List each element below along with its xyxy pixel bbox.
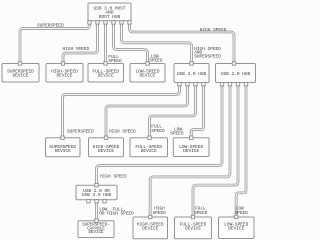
svg-text:HIGH SPEED: HIGH SPEED	[200, 27, 227, 33]
port USB 2.0 hub upstream port	[232, 62, 235, 65]
wire root port3 to Full-Speed device (FULL SPEED)	[104, 22, 107, 64]
svg-text:OR HIGH SPEED: OR HIGH SPEED	[99, 211, 134, 217]
port row-3 device upstream ports	[149, 215, 238, 218]
svg-text:DEVICE: DEVICE	[57, 73, 73, 79]
wire root port1 to SuperSpeed device (SUPERSPEED)	[20, 22, 90, 64]
svg-text:DEVICE: DEVICE	[141, 148, 157, 154]
box row-1 FULL-SPEED DEVICE	[88, 64, 124, 83]
box row-2 LOW-SPEED DEVICE	[173, 138, 209, 157]
svg-text:SUPERSPEED: SUPERSPEED	[194, 53, 221, 59]
svg-text:DEVICE: DEVICE	[98, 73, 114, 79]
box row-1 HIGH-SPEED DEVICE	[46, 64, 83, 83]
svg-text:SUPERSPEED: SUPERSPEED	[37, 22, 64, 28]
wire USB 3.0 hub port3 to row-2 Full-Speed device (FULL SPEED)	[150, 84, 196, 138]
label LOW SPEED (root to row-1 low-speed device)	[149, 53, 163, 63]
svg-text:ROOT HUB: ROOT HUB	[99, 14, 121, 20]
box U3 USB 2.0 HUB	[216, 64, 256, 83]
wire USB 2.0-or-3.0 hub middle port to SuperSpeed-capable device (LOW, FULL, OR HIGH SPEED)	[95, 200, 98, 221]
port SuperSpeed-capable device upstream port	[95, 219, 98, 222]
box SUPERSPEED-CAPABLE DEVICE	[78, 221, 114, 238]
wire root port4 to Low-Speed device (LOW SPEED)	[114, 22, 148, 64]
svg-text:SPEED: SPEED	[170, 131, 184, 137]
svg-text:DEVICE: DEVICE	[142, 226, 158, 232]
svg-text:SPEED: SPEED	[153, 210, 167, 216]
wire root port6 to USB 2.0 hub (HIGH SPEED)	[130, 22, 235, 64]
svg-text:DEVICE: DEVICE	[13, 73, 29, 79]
svg-text:SPEED: SPEED	[194, 210, 208, 216]
box row-3 HIGH-SPEED DEVICE	[133, 217, 168, 239]
box row-2 HIGH-SPEED DEVICE	[89, 138, 124, 157]
label HIGH SPEED (USB 2.0 hub to USB 2.0-or-3.0 hub)	[100, 173, 127, 179]
svg-text:HIGH SPEED: HIGH SPEED	[109, 128, 136, 134]
port USB 2.0 hub downstream ports 1-4	[220, 83, 247, 86]
svg-text:DEVICE: DEVICE	[185, 226, 201, 232]
wire USB 3.0 hub port1 to row-2 SuperSpeed device (SUPERSPEED)	[63, 84, 180, 138]
box row-3 FULL-SPEED DEVICE	[175, 217, 212, 239]
svg-text:DEVICE: DEVICE	[98, 148, 114, 154]
svg-text:DEVICE: DEVICE	[140, 73, 156, 79]
svg-text:HIGH SPEED: HIGH SPEED	[63, 46, 90, 52]
wire root port5 to USB 3.0 hub (HIGH SPEED AND SUPERSPEED)	[122, 22, 192, 64]
svg-text:HIGH SPEED: HIGH SPEED	[100, 173, 127, 179]
box U1 USB 3.0 HOST AND ROOT HUB	[88, 3, 131, 21]
box row-1 SUPERSPEED DEVICE	[2, 64, 39, 83]
label LOW SPEED (row-3)	[235, 205, 249, 216]
wire USB 2.0 hub port1 to USB 2.0-or-3.0 hub (HIGH SPEED)	[97, 84, 223, 185]
svg-text:USB 2.0 HUB: USB 2.0 HUB	[221, 71, 251, 77]
label FULL SPEED (row-2)	[151, 124, 165, 135]
port row-1 device upstream ports	[18, 62, 149, 65]
port USB 3.0 hub downstream ports 1-4	[178, 83, 205, 86]
label LOW, FULL, OR HIGH SPEED	[99, 206, 134, 216]
box row-1 LOW-SPEED DEVICE	[130, 64, 165, 83]
port root hub downstream ports 1-6	[88, 21, 131, 24]
box row-3 LOW-SPEED DEVICE	[219, 217, 255, 239]
svg-text:DEVICE: DEVICE	[183, 148, 199, 154]
box U4 USB 2.0 OR USB 3.0 HUB	[76, 185, 117, 200]
svg-text:DEVICE: DEVICE	[228, 226, 244, 232]
svg-text:DEVICE: DEVICE	[88, 231, 104, 235]
box U2 USB 3.0 HUB	[174, 64, 209, 83]
wire USB 3.0 hub port4 to row-2 Low-Speed device (LOW SPEED)	[191, 84, 203, 138]
label SUPERSPEED (root to row-1 superspeed device)	[37, 22, 64, 28]
label HIGH SPEED (root to row-1 high-speed device)	[63, 46, 90, 52]
label HIGH SPEED (root to USB 2.0 hub)	[200, 27, 227, 33]
label LOW SPEED (row-2)	[170, 127, 184, 137]
svg-text:DEVICE: DEVICE	[55, 148, 71, 154]
svg-text:SPEED: SPEED	[149, 57, 163, 63]
port row-2 device upstream ports	[61, 136, 193, 139]
wire USB 2.0 hub port4 to row-3 Low-Speed device (LOW SPEED)	[236, 84, 246, 217]
label HIGH SPEED AND SUPERSPEED (root to USB 3.0 hub)	[194, 46, 221, 60]
box row-2 SUPERSPEED DEVICE	[46, 138, 81, 157]
port USB 2.0-or-3.0 hub downstream ports 1-3	[87, 200, 106, 203]
box row-2 FULL-SPEED DEVICE	[130, 138, 168, 157]
wire USB 2.0 hub port3 to row-3 Full-Speed device (FULL SPEED)	[193, 84, 238, 217]
svg-text:USB 3.0 HUB: USB 3.0 HUB	[177, 71, 207, 77]
label FULL SPEED (root to row-1 full-speed device)	[108, 54, 122, 64]
port USB 2.0-or-3.0 hub upstream port	[95, 184, 98, 187]
wire USB 2.0 hub port2 to row-3 High-Speed device (HIGH SPEED)	[150, 84, 230, 217]
svg-text:SUPERSPEED: SUPERSPEED	[67, 128, 94, 134]
port USB 3.0 hub upstream port	[190, 62, 193, 65]
svg-text:USB 3.0 HUB: USB 3.0 HUB	[82, 192, 112, 198]
svg-text:SPEED: SPEED	[235, 210, 249, 216]
label SUPERSPEED (row-2)	[67, 128, 94, 134]
label FULL SPEED (row-3)	[194, 205, 208, 216]
wire USB 3.0 hub port2 to row-2 High-Speed device (HIGH SPEED)	[106, 84, 188, 138]
svg-text:SPEED: SPEED	[151, 128, 165, 134]
wire root port2 to High-Speed device (HIGH SPEED)	[63, 22, 98, 64]
label HIGH SPEED (row-2)	[109, 128, 136, 134]
svg-text:SPEED: SPEED	[108, 58, 122, 64]
label HIGH SPEED (row-3)	[153, 205, 167, 216]
